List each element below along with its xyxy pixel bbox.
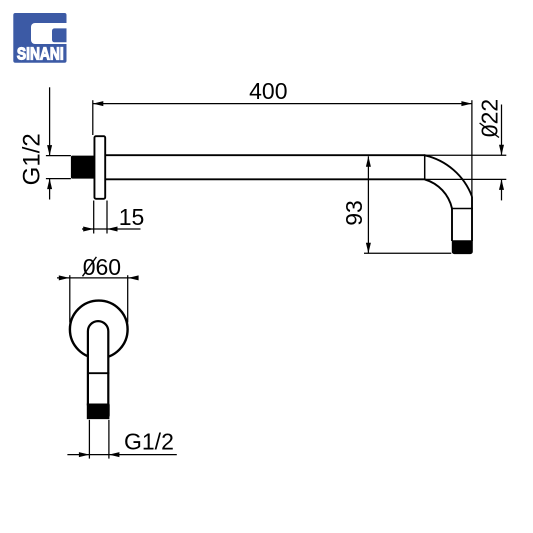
svg-text:SINANI: SINANI — [17, 45, 64, 64]
svg-text:G1/2: G1/2 — [19, 133, 46, 185]
svg-text:400: 400 — [249, 78, 287, 104]
svg-text:15: 15 — [119, 204, 145, 230]
svg-text:93: 93 — [341, 200, 367, 226]
svg-text:022: 022 — [477, 99, 503, 137]
svg-text:G1/2: G1/2 — [124, 428, 174, 454]
